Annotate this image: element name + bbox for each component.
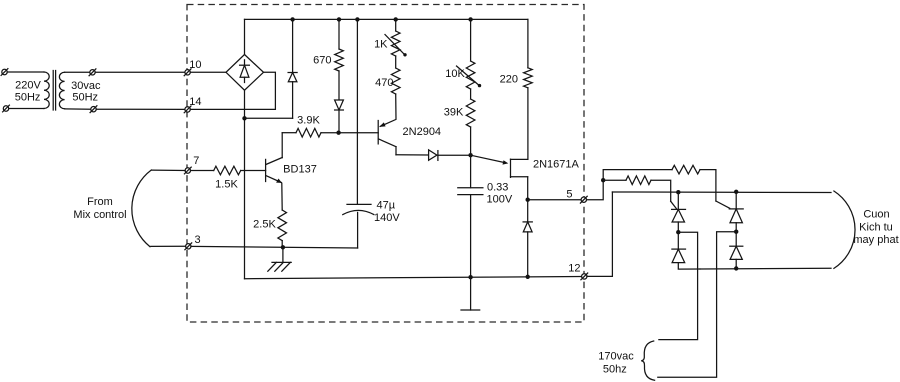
common wire to pin 12	[245, 277, 582, 279]
terminal pin 5	[580, 196, 587, 203]
svg-text:3: 3	[194, 234, 200, 246]
junction	[526, 275, 530, 279]
diode D6	[672, 232, 700, 269]
wire	[700, 170, 716, 201]
wire	[659, 232, 698, 339]
rheostat 10K	[466, 61, 475, 89]
svg-text:220V: 220V	[15, 79, 41, 91]
SCR2 gate wire	[716, 201, 730, 208]
junction	[468, 275, 472, 279]
svg-text:1K: 1K	[374, 39, 388, 51]
wire	[396, 154, 429, 156]
junction	[394, 17, 398, 21]
terminal pin 10	[184, 69, 191, 76]
junction	[281, 245, 285, 249]
diode D4	[429, 150, 438, 161]
label 1.5K	[215, 178, 238, 190]
wire	[321, 132, 339, 134]
diode D7	[730, 232, 743, 269]
svg-text:3.9K: 3.9K	[297, 115, 320, 127]
wire	[96, 108, 185, 110]
svg-text:7: 7	[193, 155, 199, 167]
capacitor C1 47u	[343, 204, 374, 248]
wire	[438, 154, 471, 156]
diode D3	[335, 100, 344, 133]
svg-text:170vac: 170vac	[598, 351, 634, 363]
junction	[290, 17, 294, 21]
label 170vac	[598, 351, 634, 363]
wire	[470, 19, 472, 61]
label 50hz	[603, 364, 627, 376]
transformer T1 core	[53, 71, 55, 111]
field coil brace	[834, 191, 855, 268]
svg-text:100V: 100V	[487, 194, 513, 206]
transistor Q1 2N2904	[378, 121, 396, 155]
wire	[395, 56, 397, 68]
ground (bar) E2	[461, 277, 480, 310]
resistor 3.9K	[296, 128, 321, 137]
wire	[603, 170, 672, 181]
terminal pin 12	[581, 273, 588, 280]
wire	[190, 72, 275, 109]
junction node B	[336, 131, 340, 135]
capacitor C2 0.33	[458, 155, 483, 277]
terminal pin 3	[185, 243, 192, 250]
label 470	[375, 77, 393, 89]
wire	[191, 246, 358, 248]
svg-text:50hz: 50hz	[603, 364, 627, 376]
resistor 39K	[466, 99, 475, 127]
junction node 5	[526, 198, 530, 202]
svg-text:5: 5	[566, 188, 572, 200]
wire	[281, 241, 283, 248]
label 3	[194, 234, 200, 246]
ground (earth) E1	[268, 247, 291, 271]
label 2N2904	[403, 126, 442, 138]
wire	[395, 19, 397, 31]
svg-text:10K: 10K	[445, 68, 465, 80]
wire	[339, 132, 379, 134]
wire	[527, 177, 529, 200]
wire	[470, 127, 472, 155]
wire	[95, 71, 185, 73]
label 220V	[15, 79, 41, 91]
regulator module dashed box	[187, 5, 584, 323]
label may phat	[853, 234, 898, 246]
resistor 220	[524, 68, 533, 88]
wire	[7, 71, 44, 73]
wire	[152, 169, 185, 171]
brace mix-control	[132, 170, 151, 247]
resistor R-gate-2	[672, 165, 700, 174]
label 30vac	[71, 80, 101, 92]
svg-text:may phat: may phat	[853, 234, 898, 246]
wire	[190, 71, 226, 73]
svg-text:10: 10	[189, 59, 201, 71]
junction	[601, 178, 605, 182]
svg-text:39K: 39K	[444, 106, 464, 118]
svg-text:From: From	[87, 196, 113, 208]
svg-text:50Hz: 50Hz	[72, 92, 98, 104]
diode D5	[523, 200, 532, 277]
resistor R-gate-1	[626, 176, 651, 185]
junction	[242, 116, 246, 120]
label From	[87, 196, 113, 208]
diode D2	[288, 19, 297, 118]
resistor 1.5K	[214, 166, 241, 175]
wire	[338, 19, 340, 49]
wire	[245, 117, 293, 119]
junction	[734, 266, 738, 270]
junction node E	[468, 153, 472, 157]
transformer T1 primary winding	[44, 72, 49, 109]
wire	[380, 94, 396, 126]
label BD137	[283, 163, 317, 175]
label 220	[500, 73, 518, 85]
wire	[65, 71, 90, 73]
rheostat 10K wiper	[457, 66, 482, 87]
svg-text:2N2904: 2N2904	[403, 126, 442, 138]
junction	[734, 230, 738, 234]
svg-text:BD137: BD137	[283, 163, 317, 175]
svg-text:30vac: 30vac	[71, 80, 101, 92]
label 0.33	[487, 182, 508, 194]
wire	[338, 71, 340, 100]
label 14	[189, 96, 201, 108]
SCR1 gate wire	[671, 201, 677, 208]
junction	[468, 17, 472, 21]
label 100V	[487, 194, 513, 206]
svg-text:Kich tu: Kich tu	[859, 222, 893, 234]
wire	[527, 19, 529, 67]
svg-text:0.33: 0.33	[487, 182, 508, 194]
label 670	[313, 54, 331, 66]
label 3.9K	[297, 115, 320, 127]
wire	[470, 89, 472, 99]
rheostat 1K wiper	[385, 35, 407, 57]
bridge rectifier BR1	[226, 55, 264, 91]
label Kich tu	[859, 222, 893, 234]
wire	[356, 19, 358, 204]
label 10	[189, 59, 201, 71]
terminal secondary top	[89, 69, 96, 76]
wire	[191, 170, 214, 172]
label 50Hz	[72, 92, 98, 104]
wire	[658, 232, 736, 378]
label Mix control	[73, 209, 126, 221]
terminal pin 7	[184, 167, 191, 174]
UJT Q2 2N1671A	[471, 155, 528, 177]
label 2.5K	[253, 219, 276, 231]
label 1K	[374, 39, 388, 51]
svg-text:Mix control: Mix control	[73, 209, 126, 221]
svg-text:470: 470	[375, 77, 393, 89]
svg-text:Cuon: Cuon	[863, 209, 889, 221]
wire	[587, 192, 613, 276]
svg-text:50Hz: 50Hz	[15, 92, 41, 104]
field coil bottom wire	[700, 267, 831, 270]
wire	[651, 180, 671, 201]
junction	[734, 190, 738, 194]
wire	[587, 180, 604, 200]
transformer T1 secondary winding	[59, 72, 64, 109]
brace 170vac	[641, 341, 654, 380]
terminal pin 14	[184, 106, 191, 113]
junction	[676, 230, 680, 234]
label 5	[566, 188, 572, 200]
svg-text:2.5K: 2.5K	[253, 219, 276, 231]
terminal primary top	[1, 69, 8, 76]
resistor 470	[391, 68, 400, 94]
wire	[244, 19, 246, 54]
label Cuon	[863, 209, 889, 221]
svg-text:12: 12	[568, 263, 580, 275]
wire	[9, 108, 44, 110]
label 7	[193, 155, 199, 167]
SCR2	[729, 192, 743, 232]
wire	[603, 179, 626, 181]
wire	[241, 170, 266, 172]
SCR1	[672, 192, 686, 232]
wire	[527, 88, 529, 160]
wire	[65, 108, 91, 110]
label 39K	[444, 106, 464, 118]
wire	[244, 90, 246, 279]
svg-text:220: 220	[500, 73, 518, 85]
field coil top wire	[612, 191, 831, 194]
wire	[528, 199, 581, 201]
resistor 670	[335, 49, 344, 71]
rheostat 1K	[391, 31, 400, 56]
terminal secondary bottom	[90, 106, 97, 113]
junction	[337, 17, 341, 21]
+V rail wire	[245, 18, 528, 20]
label 140V	[374, 212, 400, 224]
svg-text:14: 14	[189, 96, 201, 108]
svg-text:1.5K: 1.5K	[215, 178, 238, 190]
svg-text:670: 670	[313, 54, 331, 66]
terminal primary bottom	[3, 105, 10, 112]
transistor BD137	[266, 133, 283, 210]
resistor 2.5K	[278, 210, 287, 241]
svg-text:140V: 140V	[374, 212, 400, 224]
svg-text:47µ: 47µ	[377, 199, 396, 211]
label 2N1671A	[533, 159, 580, 171]
svg-text:2N1671A: 2N1671A	[533, 159, 580, 171]
label 10K	[445, 68, 465, 80]
wire	[282, 132, 296, 134]
label 50Hz	[15, 92, 41, 104]
junction	[355, 17, 359, 21]
label 47u	[377, 199, 396, 211]
junction	[676, 190, 680, 194]
wire	[151, 245, 186, 247]
label 12	[568, 263, 580, 275]
